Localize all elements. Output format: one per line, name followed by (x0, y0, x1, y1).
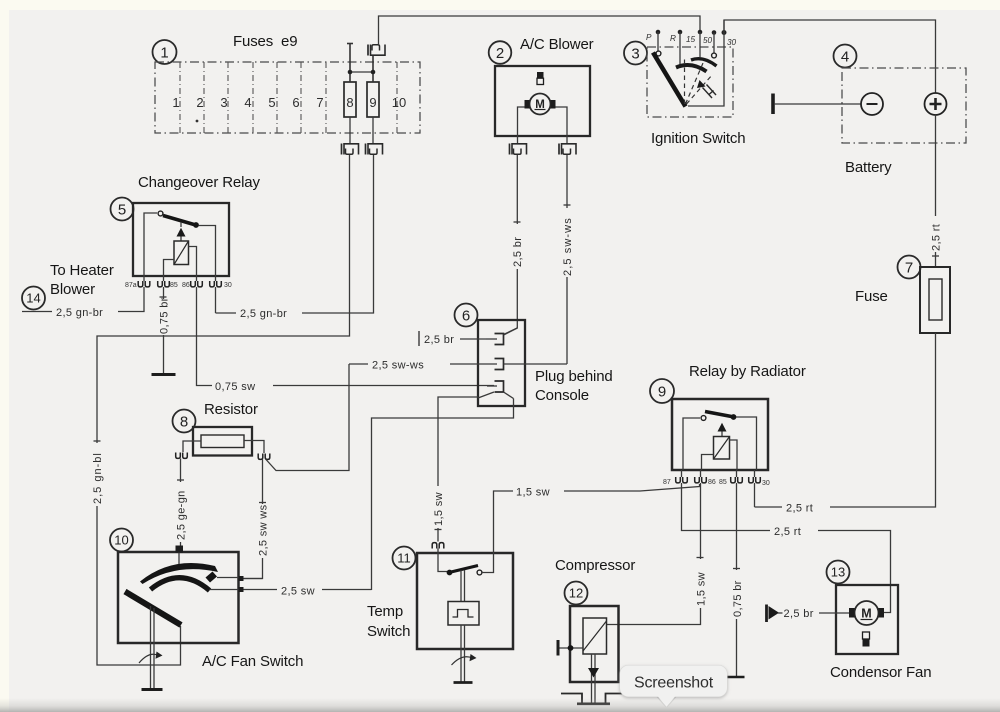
svg-text:4: 4 (841, 49, 849, 66)
rotation arrow fan switch (139, 654, 159, 663)
svg-text:30: 30 (762, 480, 770, 487)
node 13 callout circle (827, 561, 850, 584)
ground bar temp switch (454, 681, 473, 684)
svg-text:10: 10 (392, 95, 406, 110)
node 1 callout circle (153, 40, 177, 64)
node 11 callout circle (393, 547, 416, 570)
wire 85 to ground (0,75 br) (163, 287, 165, 373)
svg-text:2,5 rt: 2,5 rt (774, 526, 801, 538)
fan switch upper arc tapered (140, 563, 218, 584)
terminal 86 stub and plug (700, 470, 702, 477)
A/C blower right brush (551, 100, 556, 109)
svg-text:7: 7 (316, 95, 323, 110)
relay K2 coil (714, 437, 730, 460)
relay K1 armature arrow (180, 222, 182, 227)
wire ground flag to motor (2,5 br) (778, 612, 783, 614)
relay K2 lever dot (731, 414, 737, 420)
fuse 8 top stub wire (349, 43, 351, 82)
svg-text:2,5 br: 2,5 br (512, 237, 524, 267)
svg-text:6: 6 (462, 308, 470, 325)
terminal 30 internal feed wire (688, 20, 724, 106)
wire fuse 8 to fan switch (2,5 gn-bl) (97, 155, 350, 665)
ignition contact arc lower (676, 65, 707, 71)
label gap 2,5 br vertical (510, 224, 524, 269)
wire ground to battery minus (774, 103, 861, 105)
label gap 2,5 rt vertical (929, 216, 943, 252)
label gap 2,5 sw-ws vertical (560, 208, 574, 277)
relay K1 internal wire 87a to contact (144, 213, 157, 276)
battery ground bar (771, 94, 775, 115)
battery plus terminal (925, 93, 947, 115)
svg-text:1,5 sw: 1,5 sw (696, 572, 708, 606)
svg-text:A/C Fan Switch: A/C Fan Switch (202, 653, 303, 670)
junction link fuse8-fuse9 (350, 71, 373, 73)
svg-text:1: 1 (160, 45, 168, 62)
condenser fan M3 housing (836, 585, 898, 654)
fuse 9 lower stem (372, 117, 374, 143)
terminal 30 stub and plug (754, 470, 756, 477)
svg-text:5: 5 (118, 202, 126, 219)
A/C blower U2 housing (495, 66, 590, 136)
compressor shaft double lines (592, 654, 596, 703)
svg-text:50: 50 (703, 36, 713, 45)
wire 2,5 br blower to console plug contact 1 (504, 155, 517, 335)
wire tab to compressor coil (560, 647, 584, 649)
label gap 0,75 br vertical relay (730, 570, 744, 619)
ground tab for relay 85 (728, 676, 745, 679)
battery G1 dashed outline (842, 68, 966, 143)
connector below fuse 8 (342, 144, 359, 155)
svg-text:Blower: Blower (50, 281, 95, 298)
svg-text:2,5 sw ws: 2,5 sw ws (258, 504, 270, 556)
svg-text:3: 3 (220, 95, 227, 110)
fuse box F1 dashed outline (155, 62, 420, 133)
svg-text:2,5 sw-ws: 2,5 sw-ws (372, 360, 424, 372)
label gap 2,5 sw-ws horizontal (368, 356, 450, 372)
node 8 callout circle (173, 410, 196, 433)
wire 86 to console contact 3 (0,75 sw) (197, 287, 495, 386)
bottom edge shadow (0, 698, 1000, 712)
wire fan switch upper terminal jog to sw ws riser (244, 578, 263, 580)
compressor terminal dot (568, 645, 574, 651)
temp switch S3 housing (417, 553, 513, 649)
label gap 0,75 br vertical (156, 299, 170, 335)
temp switch sensor box (448, 602, 479, 626)
terminal 15 dot and stem (698, 30, 703, 35)
relay K2 wire dot to 30 (736, 417, 757, 470)
svg-text:86: 86 (708, 479, 716, 486)
label gap 2,5 gn-br left (52, 303, 118, 320)
node 12 callout circle (565, 582, 588, 605)
svg-text:Fuses: Fuses (233, 33, 273, 50)
fan switch S2 housing (118, 552, 239, 643)
battery minus terminal (861, 93, 883, 115)
wire battery plus down to fuse 7 (2,5 rt) (935, 115, 937, 267)
junction dot fuse 9 (371, 70, 376, 75)
svg-text:10: 10 (114, 533, 128, 548)
wire temp switch to relay 86 (1,5 sw) (482, 484, 700, 573)
ignition contact arc upper (691, 59, 717, 66)
relay K2 internal wire 87 to contact (683, 418, 700, 470)
dashed ray tilted from pivot (686, 63, 704, 104)
fan switch arc end dash (206, 572, 218, 583)
svg-text:13: 13 (831, 565, 845, 580)
svg-text:4: 4 (244, 95, 251, 110)
connector below blower left (510, 144, 527, 155)
terminal R dot and stem (678, 30, 683, 35)
svg-text:6: 6 (292, 95, 299, 110)
svg-text:R: R (670, 34, 676, 43)
node 7 callout circle (898, 256, 921, 279)
node 10 callout circle (110, 529, 133, 552)
svg-text:8: 8 (180, 414, 188, 431)
resistor right lead (244, 441, 264, 454)
svg-text:2,5 sw-ws: 2,5 sw-ws (562, 217, 574, 276)
node 4 callout circle (834, 45, 857, 68)
svg-text:e9: e9 (281, 33, 297, 50)
terminal 87a stub and plug (143, 276, 145, 281)
console contact 1 link to blower wire (504, 328, 518, 335)
A/C blower left brush (525, 100, 530, 109)
wire 2,5 sw-ws blower to console contact 2 output (566, 155, 568, 364)
ignition contact circle at P (656, 51, 661, 56)
svg-text:P: P (646, 33, 652, 42)
wire 2,5 br label to contact 1 (460, 338, 486, 340)
label gap 2,5 gn-bl vertical (90, 443, 104, 506)
svg-text:2,5 rt: 2,5 rt (931, 224, 943, 251)
svg-text:Temp: Temp (367, 603, 403, 620)
relay K1 contact circle (158, 211, 163, 216)
fan switch lever (125, 592, 181, 626)
ignition switch lever (653, 53, 686, 107)
condenser fan right brush (879, 608, 885, 618)
wire fan switch lower terminal 2,5 sw (244, 589, 372, 591)
ground bar fan switch (142, 688, 163, 691)
relay K1 coil wire to 86 (189, 247, 197, 277)
relay K1 coil (174, 241, 189, 265)
tick 2,5 br (418, 331, 420, 346)
svg-text:Resistor: Resistor (204, 401, 258, 418)
svg-text:1,5 sw: 1,5 sw (516, 487, 550, 499)
wire contact 3 to temp switch branch (438, 397, 478, 542)
fuse 8 body (344, 82, 356, 117)
wire relay 85 to ground tab (0,75 br) (736, 483, 738, 676)
relay K2 lever (705, 412, 732, 417)
svg-text:30: 30 (224, 282, 232, 289)
temp sensor pulse symbol (453, 610, 474, 618)
label gap 2,5 rt at y507 (782, 499, 830, 515)
svg-text:12: 12 (569, 586, 583, 601)
svg-text:11: 11 (397, 551, 411, 566)
svg-text:2,5 br: 2,5 br (424, 334, 454, 346)
svg-text:30: 30 (727, 38, 737, 47)
label gap 2,5 sw ws vertical (256, 504, 270, 558)
label gap 2,5 gn-br right (236, 305, 302, 322)
node 2 callout circle (489, 41, 512, 64)
wire relay 87 to condenser fan (2,5 rt) (682, 483, 891, 613)
temp switch plug on top (432, 543, 444, 549)
wire resistor left to fan switch top (2,5 ge-gn) (180, 459, 182, 547)
junction dot fuse 8 (348, 70, 353, 75)
wire top bus from fuse 9 to ignition terminal 15 (379, 16, 701, 44)
relay K1 lever dot (193, 222, 199, 228)
Screenshot tooltip bubble (620, 666, 727, 708)
relay K1 coil wire to 85 (164, 260, 175, 277)
terminal 30 dot (722, 30, 727, 35)
compressor arrow down (588, 668, 599, 678)
node 6 callout circle (455, 304, 478, 327)
condenser fan left brush (849, 608, 855, 618)
fuse 9 top stem wire (372, 56, 374, 82)
svg-text:Screenshot: Screenshot (634, 675, 714, 692)
wire fuse 9 down to changeover relay 30 (2,5 gn-br) (216, 155, 374, 313)
svg-text:85: 85 (719, 479, 727, 486)
wire 30 to fuse 9 (2,5 gn-br) (215, 287, 217, 313)
wire contact 3 to fan switch 2,5 sw branch (372, 399, 514, 591)
resistor left lead (183, 441, 201, 452)
resistor R1 element (201, 435, 244, 448)
wire upper arc to terminal (217, 577, 239, 579)
console contact 3 trapezoid right (504, 392, 514, 399)
label gap 0,75 sw (212, 377, 273, 394)
fan switch feed dot on top edge (176, 546, 184, 553)
wire fuse 7 down to relay 30 junction (2,5 rt) (755, 333, 936, 507)
rotation arrow temp switch (452, 657, 473, 665)
svg-text:2,5 sw: 2,5 sw (281, 586, 315, 598)
fuse box slot separators (180, 62, 397, 133)
svg-text:Changeover Relay: Changeover Relay (138, 174, 260, 191)
label gap 2,5 sw (277, 582, 322, 598)
resistor R1 outer housing (193, 427, 252, 456)
resistor right plug (258, 454, 270, 460)
svg-text:0,75 sw: 0,75 sw (215, 381, 255, 393)
fuse F7 inner element (929, 279, 942, 320)
console contact 2 (495, 359, 504, 370)
condenser fan bottom connector symbol (863, 632, 870, 639)
compressor feed tab bar (557, 640, 560, 656)
svg-text:9: 9 (658, 384, 666, 401)
ignition switch S1 dashed outline (647, 47, 733, 117)
relay K1 wire dot to 30 (199, 226, 216, 277)
wire resistor right diagonal to sw-ws junction (266, 364, 349, 471)
svg-text:Console: Console (535, 387, 589, 404)
radiator relay K2 housing (672, 399, 768, 470)
svg-text:Condensor Fan: Condensor Fan (830, 664, 931, 681)
fan switch feed stub (178, 553, 180, 568)
terminal 87 stub and plug (681, 470, 683, 477)
svg-text:3: 3 (631, 46, 639, 63)
dashed ray vertical from pivot (684, 57, 686, 104)
temp switch lower double lines (461, 625, 465, 682)
svg-text:A/C Blower: A/C Blower (520, 36, 594, 53)
connector below fuse 9 (366, 144, 383, 155)
svg-text:2,5 ge-gn: 2,5 ge-gn (176, 490, 188, 540)
svg-text:Switch: Switch (367, 623, 410, 640)
temp switch contact dot (447, 570, 453, 576)
console plug X1 housing (478, 320, 525, 406)
relay K2 coil wire to 85 (730, 440, 738, 470)
compressor bottom connector (561, 694, 629, 704)
fan switch wiper lines to ground (151, 606, 155, 688)
A/C blower motor M (530, 94, 551, 115)
ground flag condenser fan (765, 605, 768, 623)
svg-text:M: M (861, 607, 871, 621)
wire ignition terminal 30 to battery plus (724, 20, 936, 93)
console contact 3 trapezoid left (478, 392, 494, 398)
compressor clutch coil (583, 618, 607, 654)
wire blower right brush to connector (556, 107, 568, 143)
svg-text:0,75 br: 0,75 br (159, 297, 171, 334)
svg-text:1,5 sw: 1,5 sw (433, 492, 445, 526)
label gap 2,5 ge-gn vertical (174, 482, 188, 542)
svg-text:Plug behind: Plug behind (535, 368, 613, 385)
svg-text:2: 2 (196, 95, 203, 110)
svg-text:To Heater: To Heater (50, 262, 114, 279)
svg-text:9: 9 (369, 95, 376, 110)
wire relay 30 down to 2,5 rt junction (754, 483, 756, 507)
svg-text:15: 15 (686, 35, 696, 44)
changeover relay K1 housing (133, 203, 229, 276)
svg-text:5: 5 (268, 95, 275, 110)
relay K2 coil wire to 86 (702, 455, 714, 471)
compressor M2 housing (570, 606, 619, 682)
svg-text:87: 87 (663, 479, 671, 486)
dashed ray right from pivot (687, 75, 713, 104)
ignition key symbol (697, 80, 706, 88)
terminal 85 stub and plug (163, 276, 165, 281)
relay K2 armature arrow (718, 423, 727, 432)
svg-text:0,75 br: 0,75 br (732, 580, 744, 617)
svg-text:87a: 87a (125, 282, 137, 289)
speck in slot 2 (196, 120, 199, 123)
fuse 8 lower stem (349, 117, 351, 143)
temp switch lever (451, 566, 478, 573)
terminal P dot and stem (656, 30, 661, 35)
svg-text:Ignition Switch: Ignition Switch (651, 130, 745, 147)
svg-text:Compressor: Compressor (555, 557, 635, 574)
console contact 3 (495, 381, 504, 392)
label gap 1,5 sw horizontal (513, 483, 564, 499)
svg-text:2,5 gn-bl: 2,5 gn-bl (92, 452, 104, 504)
label gap 1,5 sw vertical compressor (693, 559, 707, 608)
svg-text:7: 7 (905, 260, 913, 277)
ignition contact circle at 50 (712, 53, 717, 58)
relay K1 lever (163, 216, 194, 225)
label gap 2,5 rt at y530 (770, 522, 818, 538)
temp switch contact circle (477, 570, 482, 575)
svg-text:2,5 rt: 2,5 rt (786, 503, 813, 515)
terminal 85 stub and plug (736, 470, 738, 477)
relay K2 contact circle (701, 416, 706, 421)
connector above fuse 9 (368, 45, 385, 56)
wire 2,5 sw-ws into contact 2 (349, 363, 497, 365)
svg-text:2,5 br: 2,5 br (784, 608, 814, 620)
svg-text:Battery: Battery (845, 159, 892, 176)
wire 87a to heater blower (2,5 gn-br) (22, 287, 144, 312)
terminal 30 stub and plug (215, 276, 217, 281)
svg-text:Fuse: Fuse (855, 288, 888, 305)
fuse F7 outer body (920, 267, 950, 333)
svg-text:1: 1 (172, 95, 179, 110)
svg-text:86: 86 (182, 282, 190, 289)
condenser fan motor M (855, 601, 879, 625)
label gap 1,5 sw vertical temp (431, 486, 445, 528)
wire resistor right down to fan switch (2,5 sw ws) (244, 460, 263, 579)
node 3 callout circle (624, 42, 647, 65)
terminal 86 stub and plug (196, 276, 198, 281)
fuse 9 body (367, 82, 379, 117)
ground symbol changeover relay (152, 373, 176, 376)
wire blower left brush to connector (518, 107, 525, 143)
svg-text:2: 2 (496, 45, 504, 62)
wire contact 2 out to blower right (504, 363, 568, 365)
svg-text:85: 85 (170, 282, 178, 289)
fan switch terminal dots (239, 576, 244, 581)
resistor left plug (176, 453, 188, 459)
node 14 callout circle (22, 287, 45, 310)
wire relay 86 down to compressor (1,5 sw) (607, 483, 701, 625)
fan switch lower arc (151, 578, 210, 591)
node 5 callout circle (111, 198, 134, 221)
svg-text:2,5 gn-br: 2,5 gn-br (240, 308, 287, 320)
wire lower arc to terminal (210, 589, 239, 591)
svg-text:Relay by Radiator: Relay by Radiator (689, 363, 806, 380)
svg-text:8: 8 (346, 95, 353, 110)
temp switch feed stem (438, 549, 447, 572)
console contact 1 (495, 334, 504, 345)
svg-text:14: 14 (26, 291, 40, 306)
terminal 50 dot and stem (712, 30, 717, 35)
A/C blower top connector symbol (537, 72, 544, 78)
connector below blower right (559, 144, 576, 155)
svg-text:2,5 gn-br: 2,5 gn-br (56, 307, 103, 319)
node 9 callout circle (650, 379, 674, 403)
temp switch sensor stem double lines (461, 570, 465, 602)
